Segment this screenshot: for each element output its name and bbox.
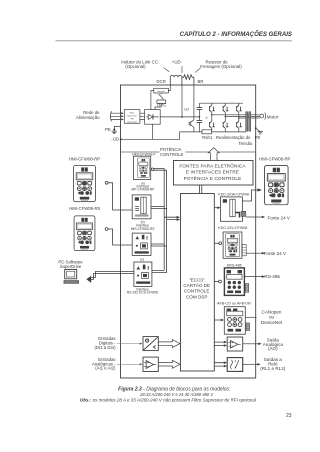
svg-text:Contator: Contator xyxy=(157,90,165,93)
svg-text:CONTROLE: CONTROLE xyxy=(184,289,210,294)
svg-text:(AO): (AO) xyxy=(268,346,278,351)
svg-text:Rsh1: Rsh1 xyxy=(202,135,213,140)
svg-text:Fonte 24 V: Fonte 24 V xyxy=(264,251,287,256)
svg-text:KDC-24V-CFW08: KDC-24V-CFW08 xyxy=(218,226,247,230)
svg-text:Obs.: os modelos 28 A e 33 A/2: Obs.: os modelos 28 A e 33 A/200-240 V n… xyxy=(80,397,257,402)
svg-text:CARTÃO DE: CARTÃO DE xyxy=(183,282,210,288)
svg-text:Realimentação de: Realimentação de xyxy=(216,135,251,140)
svg-text:FONTES PARA ELETRÔNICA: FONTES PARA ELETRÔNICA xyxy=(179,162,246,168)
svg-text:Ud: Ud xyxy=(184,108,188,112)
svg-text:(n): (n) xyxy=(140,257,144,261)
svg-text:(AI1 e AI2): (AI1 e AI2) xyxy=(95,366,116,371)
svg-text:DCR: DCR xyxy=(157,79,166,84)
svg-text:BR: BR xyxy=(198,79,204,84)
svg-text:Supressor: Supressor xyxy=(127,114,137,117)
svg-text:-UD: -UD xyxy=(111,137,119,142)
svg-text:RS-232 KCS-CFW08: RS-232 KCS-CFW08 xyxy=(127,291,158,295)
svg-text:HMI-CFW08-RP: HMI-CFW08-RP xyxy=(259,156,290,161)
svg-text:POTÊNCIA E CONTROLE: POTÊNCIA E CONTROLE xyxy=(184,174,242,181)
svg-text:28-33 A/200-240 V e 24-30 A/38: 28-33 A/200-240 V e 24-30 A/380-480 V xyxy=(139,392,214,397)
svg-text:"ECC3": "ECC3" xyxy=(189,277,205,282)
svg-text:Frenagem (Opcional): Frenagem (Opcional) xyxy=(200,64,242,69)
svg-text:(Opcional): (Opcional) xyxy=(127,121,137,123)
svg-text:(RL1 e RL2): (RL1 e RL2) xyxy=(260,366,285,371)
svg-text:E INTERFACES ENTRE: E INTERFACES ENTRE xyxy=(186,170,239,175)
svg-text:CANopen: CANopen xyxy=(262,309,282,314)
svg-text:Fonte 24 V: Fonte 24 V xyxy=(268,215,291,220)
svg-text:SuperDrive: SuperDrive xyxy=(60,264,82,269)
svg-text:RFI: RFI xyxy=(130,118,134,120)
svg-text:23: 23 xyxy=(286,413,292,419)
svg-text:AFB-CO ou AFB-DN: AFB-CO ou AFB-DN xyxy=(217,301,251,305)
svg-text:MIS-CFW08-RS: MIS-CFW08-RS xyxy=(131,227,156,231)
svg-text:DeviceNet: DeviceNet xyxy=(261,320,283,325)
svg-text:ou: ou xyxy=(269,315,275,320)
svg-text:(Opcional): (Opcional) xyxy=(125,64,146,69)
svg-text:+UD: +UD xyxy=(172,59,181,64)
svg-text:HMI-CFW08-RS: HMI-CFW08-RS xyxy=(69,206,100,211)
svg-text:COM DSP: COM DSP xyxy=(186,294,207,299)
svg-text:RS-485: RS-485 xyxy=(264,274,280,279)
svg-text:PE: PE xyxy=(105,127,111,132)
svg-text:CAPÍTULO 2 - INFORMAÇÕES GERAI: CAPÍTULO 2 - INFORMAÇÕES GERAIS xyxy=(180,31,292,38)
svg-text:(DI1 a DI4): (DI1 a DI4) xyxy=(94,345,116,350)
svg-text:Motor: Motor xyxy=(267,114,279,119)
svg-text:Tensão: Tensão xyxy=(239,141,253,146)
svg-text:HMI-CFW08-RP: HMI-CFW08-RP xyxy=(69,156,100,161)
svg-text:Rede de: Rede de xyxy=(83,110,100,115)
svg-text:PE: PE xyxy=(255,135,261,140)
svg-text:MP-CFW08-RP: MP-CFW08-RP xyxy=(131,188,155,192)
svg-text:KDC-2KW-CFW08: KDC-2KW-CFW08 xyxy=(218,192,249,196)
svg-text:CONTROLE: CONTROLE xyxy=(160,152,183,157)
svg-text:RPC: RPC xyxy=(157,103,166,108)
svg-text:Alimentação: Alimentação xyxy=(76,115,100,120)
svg-text:KRS-485: KRS-485 xyxy=(227,263,242,267)
